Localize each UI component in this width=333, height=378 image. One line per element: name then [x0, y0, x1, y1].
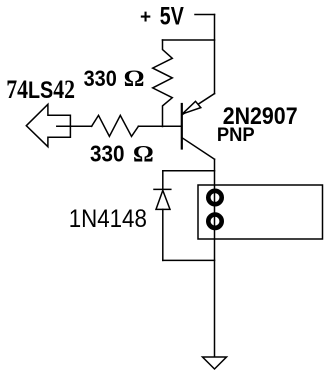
- wire base right (resistor to transistor base): [138, 125, 181, 127]
- transistor Q1 emitter: [183, 94, 215, 115]
- svg-text:Ω: Ω: [124, 66, 145, 92]
- wire resistor R1 top: [163, 39, 215, 41]
- transistor Q1 collector: [182, 138, 215, 160]
- wire base left (arrow to resistor): [57, 125, 92, 127]
- load terminal ring (top): [208, 191, 221, 204]
- svg-text:330: 330: [84, 67, 117, 91]
- svg-text:330: 330: [90, 140, 124, 166]
- wire collector vertical (to ground): [214, 159, 216, 357]
- svg-text:5V: 5V: [160, 2, 184, 30]
- wire +5V rail vertical (to emitter): [214, 15, 216, 94]
- resistor R1 330 ohm (vertical): [153, 40, 173, 127]
- wire diode bottom: [163, 259, 215, 261]
- diode D1 triangle (open, pointing up): [156, 190, 170, 209]
- connector arrow (74LS42 output): [26, 104, 70, 146]
- svg-text:Ω: Ω: [133, 142, 154, 167]
- svg-text:PNP: PNP: [217, 124, 255, 145]
- transistor Q1 base bar: [181, 104, 183, 149]
- wire diode top: [163, 170, 215, 172]
- wire +5V rail horizontal: [195, 14, 215, 16]
- diode D1 cathode bar: [154, 188, 171, 190]
- diode D1 bottom lead: [162, 209, 164, 260]
- svg-text:74LS42: 74LS42: [6, 75, 75, 105]
- resistor R2 330 ohm (horizontal): [92, 115, 139, 136]
- svg-text:1N4148: 1N4148: [69, 206, 147, 233]
- transistor Q1 emitter arrowhead (open, pointing to base): [182, 101, 201, 114]
- load (relay/sounder) box: [198, 185, 323, 239]
- diode D1 top lead: [162, 171, 164, 190]
- ground: [203, 357, 227, 369]
- load terminal ring (bottom): [208, 215, 221, 228]
- svg-text:+: +: [140, 7, 151, 28]
